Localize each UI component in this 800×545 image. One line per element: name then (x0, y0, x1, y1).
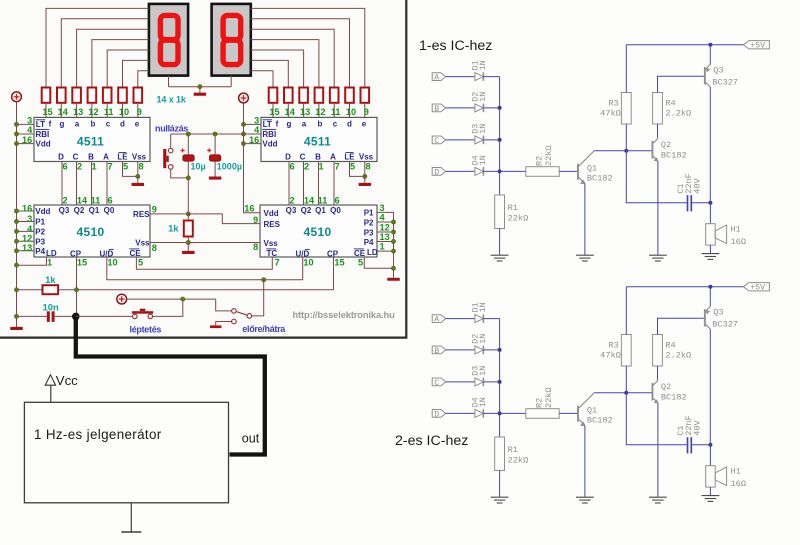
svg-text:4511: 4511 (77, 135, 104, 149)
svg-text:47kΩ: 47kΩ (600, 351, 621, 361)
power symbol +V stepping (117, 294, 127, 304)
wire DISP1 pin e to resistor column (138, 71, 149, 88)
IC U3 4510 body (34, 205, 150, 257)
svg-text:47kΩ: 47kΩ (600, 109, 621, 119)
wire resistor to 4511 IC1 pin (91, 103, 93, 118)
svg-text:3: 3 (27, 214, 32, 224)
svg-text:D: D (285, 153, 291, 162)
transistor Q2 BC182 (circuit 2) (652, 383, 654, 401)
wire resistor to 4511 IC1 pin (60, 103, 62, 118)
svg-text:léptetés: léptetés (130, 325, 162, 335)
svg-text:D: D (58, 153, 64, 162)
diode D3 (circuit 2) (475, 378, 484, 386)
capacitor 1000u plus sign (207, 149, 211, 151)
svg-text:2.2kΩ: 2.2kΩ (665, 109, 691, 119)
resistor segment-e (14 x 1k bank, right) (361, 88, 370, 103)
svg-text:15: 15 (334, 258, 344, 268)
wire U4 P1 to right rail (377, 212, 394, 277)
svg-text:BC182: BC182 (587, 173, 613, 183)
svg-text:g: g (60, 120, 65, 129)
svg-text:a: a (75, 120, 80, 129)
junction speaker node (circuit 1) (708, 201, 712, 205)
svg-text:P2: P2 (364, 218, 374, 227)
junction rail Q3 (circuit 1) (708, 43, 712, 47)
svg-text:22kΩ: 22kΩ (544, 145, 554, 166)
svg-text:R4: R4 (665, 340, 675, 350)
supply flag +5V (circuit 1) (743, 41, 769, 49)
svg-text:B: B (434, 105, 439, 114)
wire port A to diode D1 (circuit 1) (446, 76, 475, 78)
svg-text:4510: 4510 (304, 225, 332, 239)
svg-text:11: 11 (91, 195, 101, 205)
svg-text:Vdd: Vdd (36, 140, 51, 149)
input port A (circuit 2) (432, 315, 446, 323)
wire C-Q2 (left pair) (76, 162, 78, 206)
wire U4 P-pin to right rail (377, 241, 394, 243)
svg-text:3: 3 (380, 203, 385, 213)
input port D (circuit 1) (432, 168, 446, 176)
svg-text:CE: CE (130, 249, 142, 258)
junction bus (circuit 2) (498, 411, 502, 415)
wire Q1 emitter to ground (circuit 1) (584, 183, 586, 255)
wire throw2 to ground (216, 322, 232, 326)
ground R1 (circuit 1) (491, 254, 509, 256)
wire R3 bottom to node (circuit 1) (625, 124, 627, 151)
wire port D to diode D4 (circuit 2) (446, 412, 475, 414)
svg-text:1k: 1k (45, 274, 56, 285)
wire to display ground (199, 87, 201, 93)
7-segment display DISP2 body (212, 4, 251, 76)
wire resistor to 4511 IC2 pin (318, 103, 320, 118)
wire U1 pin16 Vdd (17, 143, 35, 145)
svg-text:c: c (333, 120, 338, 129)
svg-text:R1: R1 (508, 445, 518, 455)
svg-text:14: 14 (77, 195, 88, 205)
svg-text:R2: R2 (534, 398, 544, 408)
wire diode-OR bus (circuit 1) (499, 77, 501, 195)
wire A-Q0 (right pair) (333, 162, 335, 206)
wire U4 CP down (333, 257, 335, 290)
wire +5V rail (circuit 2) (626, 286, 743, 288)
svg-text:14 x 1k: 14 x 1k (157, 94, 187, 104)
svg-text:P4: P4 (364, 238, 374, 247)
svg-text:7: 7 (107, 161, 112, 171)
switch elore/hatra throw1 contact (232, 309, 237, 314)
wire DISP2 pin to resistor column x=364.8 (251, 8, 365, 87)
transistor Q1 BC182 (circuit 2) (577, 406, 579, 422)
wire U1 pin4 RBI (17, 133, 35, 135)
wire DISP1 pin f to resistor column (46, 8, 149, 87)
svg-text:1k: 1k (168, 223, 179, 234)
svg-text:+5V: +5V (750, 42, 765, 51)
svg-text:5: 5 (138, 258, 143, 268)
wire U3 CP down to clock node (76, 257, 78, 316)
junction node base2 (circuit 1) (624, 149, 628, 153)
capacitor C1 22nF (circuit 2) (687, 437, 689, 453)
svg-text:Vss: Vss (359, 153, 374, 162)
switch elore/hatra throw2 contact (232, 319, 237, 324)
svg-text:10: 10 (346, 107, 356, 117)
capacitor C 1000u plate (209, 155, 220, 161)
wire resistor to 4511 IC1 pin (76, 103, 78, 118)
svg-text:16: 16 (22, 203, 32, 213)
svg-text:12: 12 (315, 107, 325, 117)
wire DISP2 pin to resistor column x=349.5 (251, 19, 350, 88)
svg-text:13: 13 (300, 107, 310, 117)
wire R4 top to Q3 base (circuit 2) (658, 318, 704, 334)
wire bus to R2 (circuit 2) (500, 412, 526, 414)
svg-text:16: 16 (249, 135, 259, 145)
svg-text:4510: 4510 (77, 225, 105, 239)
wire port C to diode D3 (circuit 2) (446, 381, 475, 383)
7-segment display DISP1 digit 8 (160, 15, 178, 64)
svg-text:13: 13 (22, 243, 32, 253)
wire U3 pin 3 P1 (17, 221, 35, 223)
input port B (circuit 1) (432, 104, 446, 112)
svg-text:15: 15 (77, 258, 87, 268)
wire R2 to Q1 base (circuit 1) (559, 170, 577, 172)
resistor segment-a (14 x 1k bank, right) (299, 88, 308, 103)
supply flag +5V (circuit 2) (743, 283, 769, 291)
svg-text:Q3: Q3 (59, 206, 70, 215)
resistor R2 22k (circuit 2) (526, 409, 559, 419)
wire U3 LD to rail (17, 257, 47, 265)
svg-text:8: 8 (253, 242, 258, 252)
svg-text:+5V: +5V (750, 284, 765, 293)
svg-text:9: 9 (137, 107, 142, 117)
svg-text:40V: 40V (692, 177, 702, 193)
wire bus to selector throw1 (216, 299, 232, 311)
svg-text:1-es IC-hez: 1-es IC-hez (419, 38, 492, 54)
ground Q2 (circuit 1) (649, 254, 667, 256)
svg-text:Q3: Q3 (713, 307, 723, 317)
wire R3 top to rail (circuit 1) (625, 45, 627, 93)
wire A-Q0 (left pair) (106, 162, 108, 206)
svg-text:BC327: BC327 (712, 319, 738, 329)
wire Q3 emitter to rail (circuit 2) (709, 287, 711, 307)
wire U3 RES to junction (150, 213, 188, 215)
svg-text:BC182: BC182 (661, 393, 687, 403)
svg-text:D: D (434, 410, 439, 419)
wire U3 pin 4 P2 (17, 230, 35, 232)
wire Q2 emitter down (circuit 1) (657, 161, 659, 255)
wire U2 Vss stub (364, 176, 366, 183)
wire U2 Vss down (364, 162, 366, 177)
svg-text:22kΩ: 22kΩ (508, 214, 529, 224)
wire 1k bottom stub (187, 237, 189, 243)
junction bus (circuit 2) (498, 380, 502, 384)
7-segment display DISP1 body (149, 4, 188, 76)
wire 1000u top (214, 134, 216, 155)
diode D2 (circuit 1) (475, 104, 484, 112)
wire Vcc to generator (50, 385, 52, 402)
svg-text:P3: P3 (364, 228, 374, 237)
svg-text:10: 10 (107, 258, 117, 268)
junction bus (circuit 2) (498, 348, 502, 352)
svg-text:D: D (434, 168, 439, 177)
svg-text:e: e (362, 120, 367, 129)
resistor R4 2.2k (circuit 1) (653, 93, 663, 125)
wire DISP1 pin d to resistor column (123, 60, 149, 87)
wire node to speaker (circuit 2) (709, 445, 711, 466)
svg-text:Q1: Q1 (587, 163, 597, 173)
capacitor 10u plus sign (181, 149, 185, 151)
wire resistor to 4511 IC1 pin (122, 103, 124, 118)
wire resistor to 4511 IC2 pin (364, 103, 366, 118)
wire port B to diode D2 (circuit 1) (446, 107, 475, 109)
input port C (circuit 2) (432, 378, 446, 386)
wire diode D3 to bus (circuit 1) (483, 139, 499, 141)
svg-text:22kΩ: 22kΩ (508, 456, 529, 466)
svg-text:előre/hátra: előre/hátra (242, 324, 286, 334)
svg-text:http://bsselektronika.hu: http://bsselektronika.hu (293, 309, 396, 320)
svg-text:1: 1 (47, 258, 52, 268)
svg-text:R3: R3 (608, 98, 618, 108)
svg-text:B: B (434, 347, 439, 356)
junction U1 Vss-LE (136, 174, 140, 178)
wire diode D4 to bus (circuit 1) (483, 170, 499, 172)
wire R3 bottom to node (circuit 2) (625, 366, 627, 393)
svg-text:15: 15 (269, 107, 279, 117)
svg-text:out: out (242, 432, 260, 446)
svg-text:2: 2 (289, 195, 294, 205)
resistor segment-d (14 x 1k bank, right) (345, 88, 354, 103)
wire B-Q1 (right pair) (318, 162, 320, 206)
wire node to speaker (circuit 1) (709, 203, 711, 224)
wire U3 CE to U4 TC (136, 257, 272, 269)
junction node base2 (circuit 2) (624, 391, 628, 395)
svg-text:1N: 1N (479, 124, 488, 134)
wire resistor to 4511 IC2 pin (349, 103, 351, 118)
resistor segment-f (14 x 1k bank, left) (42, 88, 51, 103)
svg-text:Vss: Vss (135, 239, 150, 248)
wire C-Q2 (right pair) (303, 162, 305, 206)
wire U2 pin4 RBI (244, 133, 262, 135)
svg-text:Q3: Q3 (286, 206, 297, 215)
diode D1 (circuit 1) (475, 73, 484, 81)
svg-text:C: C (434, 379, 439, 388)
svg-text:8: 8 (152, 243, 157, 253)
svg-text:10µ: 10µ (191, 161, 206, 171)
svg-text:LE: LE (117, 153, 128, 162)
wire DISP1 pin b to resistor column (92, 40, 149, 88)
resistor segment-g (14 x 1k bank, right) (284, 88, 293, 103)
wire C1 to speaker node (circuit 2) (692, 444, 710, 446)
wire R4 top to Q3 base (circuit 1) (658, 76, 704, 92)
junction bus (circuit 1) (498, 169, 502, 173)
wire port C to diode D3 (circuit 1) (446, 139, 475, 141)
svg-text:9: 9 (152, 205, 157, 215)
svg-text:2.2kΩ: 2.2kΩ (665, 351, 691, 361)
wire Q3 emitter to rail (circuit 1) (709, 45, 711, 65)
svg-text:1: 1 (318, 161, 323, 171)
wire U4 CE down (364, 257, 393, 268)
resistor segment-g (14 x 1k bank, left) (57, 88, 66, 103)
ground Q2 (circuit 2) (649, 496, 667, 498)
wire node to leptetes button (76, 315, 133, 317)
svg-text:10: 10 (119, 107, 129, 117)
svg-text:12: 12 (380, 223, 390, 233)
wire U1 LE to Vss (123, 162, 138, 177)
svg-text:b: b (318, 120, 323, 129)
wire D-Q3 (right pair) (288, 162, 290, 206)
resistor segment-b (14 x 1k bank, right) (315, 88, 324, 103)
wire diode D1 to bus (circuit 1) (483, 76, 499, 78)
wire 10n to node (55, 315, 76, 317)
svg-text:4: 4 (27, 125, 33, 135)
wire generator ground stem (130, 503, 132, 532)
wire 1k to ground (187, 243, 189, 251)
wire U3 pin 13 P4 (17, 250, 35, 252)
resistor R 1k (reset) (184, 221, 193, 237)
ground U4 right rail (387, 278, 400, 281)
resistor R1 22k (circuit 1) (495, 195, 505, 229)
wire nullazas top bus (171, 133, 244, 135)
input port D (circuit 2) (432, 410, 446, 418)
pushbutton nullazas cap (163, 149, 166, 168)
svg-text:P3: P3 (35, 237, 45, 246)
svg-text:22kΩ: 22kΩ (544, 387, 554, 408)
wire node to Q2 base (circuit 2) (626, 392, 651, 394)
svg-text:11: 11 (104, 107, 114, 117)
ground displays common (194, 93, 207, 96)
wire RES net to U4 RES (188, 214, 260, 224)
capacitor C 10u plate (183, 155, 194, 161)
junction right rail CE (391, 266, 395, 270)
power symbol +V left (12, 92, 22, 102)
svg-text:4: 4 (27, 224, 33, 234)
ground Q1 (circuit 1) (576, 254, 594, 256)
svg-text:C: C (300, 153, 306, 162)
transistor Q2 BC182 (circuit 1) (652, 141, 654, 159)
svg-text:LD: LD (367, 248, 378, 257)
svg-text:RBI: RBI (36, 130, 50, 139)
wire R4 bottom to Q2 collector (circuit 2) (657, 366, 659, 380)
svg-text:LE: LE (344, 153, 355, 162)
wire DISP2 common cathode (230, 76, 232, 87)
wire diode D4 to bus (circuit 2) (483, 412, 499, 414)
resistor segment-f (14 x 1k bank, right) (269, 88, 278, 103)
wire node to C1 (circuit 1) (626, 151, 686, 203)
svg-text:13: 13 (73, 107, 83, 117)
resistor segment-e (14 x 1k bank, left) (134, 88, 143, 103)
wire Q2 emitter down (circuit 2) (657, 403, 659, 497)
ground left rail (10, 327, 23, 330)
ground generator (121, 531, 141, 533)
wire right supply rail (244, 103, 262, 213)
svg-text:16: 16 (22, 135, 32, 145)
svg-text:9: 9 (364, 107, 369, 117)
svg-text:Q2: Q2 (661, 140, 671, 150)
switch elore/hatra lever (236, 312, 247, 316)
svg-text:10: 10 (303, 258, 313, 268)
svg-text:P2: P2 (35, 227, 45, 236)
resistor R4 2.2k (circuit 2) (653, 335, 663, 367)
svg-text:7: 7 (274, 258, 279, 268)
svg-text:1N: 1N (479, 92, 488, 102)
wire port A to diode D1 (circuit 2) (446, 318, 475, 320)
svg-text:8: 8 (365, 161, 370, 171)
svg-text:5: 5 (358, 258, 363, 268)
resistor R3 47k (circuit 2) (621, 335, 631, 367)
node clock output (big junction) (72, 313, 80, 321)
ground Q1 (circuit 2) (576, 496, 594, 498)
ground H1 (circuit 1) (702, 253, 720, 255)
svg-text:10n: 10n (43, 301, 59, 312)
junction RES net (186, 212, 190, 216)
wire port B to diode D2 (circuit 2) (446, 349, 475, 351)
svg-text:Vdd: Vdd (262, 140, 277, 149)
ground selector throw2 (210, 325, 222, 328)
supply Vcc triangle (45, 375, 55, 385)
wire resistor to 4511 IC2 pin (287, 103, 289, 118)
svg-text:d: d (347, 120, 352, 129)
wire 1000u bottom (214, 161, 216, 176)
svg-text:14: 14 (285, 107, 296, 117)
ground H1 (circuit 2) (702, 495, 720, 497)
wire resistor to 4511 IC2 pin (333, 103, 335, 118)
wire diode D1 to bus (circuit 2) (483, 318, 499, 320)
wire U2 pin16 Vdd (244, 143, 262, 145)
svg-text:A: A (103, 153, 109, 162)
wire node to Q2 base (circuit 1) (626, 150, 651, 152)
svg-text:16Ω: 16Ω (731, 237, 746, 247)
wire nullazas button top (170, 134, 172, 148)
junction CP U3 (74, 288, 78, 292)
resistor R 1k (clock) (43, 285, 59, 294)
wire DISP2 pin to resistor column x=273.0 (251, 71, 273, 88)
wire speaker to ground (circuit 1) (709, 245, 711, 254)
svg-text:2: 2 (304, 161, 309, 171)
ground U2 Vss (359, 183, 372, 186)
wire Q3 collector down (circuit 1) (709, 87, 711, 203)
junction rail 10n (14, 314, 18, 318)
svg-text:nullázás: nullázás (155, 123, 188, 133)
junction rail Q3 (circuit 2) (708, 285, 712, 289)
diode D4 (circuit 2) (475, 409, 484, 417)
wire resistor to 4511 IC2 pin (303, 103, 305, 118)
svg-text:1000µ: 1000µ (217, 161, 242, 171)
wire R2 to Q1 base (circuit 2) (559, 412, 577, 414)
svg-text:2: 2 (62, 195, 67, 205)
svg-text:1N: 1N (479, 302, 488, 312)
wire U3 U/D to U4 U/D (107, 257, 303, 280)
svg-text:8: 8 (138, 161, 143, 171)
wire speaker to ground (circuit 2) (709, 487, 711, 496)
svg-text:1: 1 (380, 242, 385, 252)
transistor Q3 BC327 (circuit 1) (704, 67, 706, 84)
svg-text:BC182: BC182 (587, 415, 613, 425)
IC U1 4511 body (34, 117, 150, 161)
junction Vss-1k (186, 240, 190, 244)
junction bus (circuit 1) (498, 106, 502, 110)
wire U4 P-pin to right rail (377, 250, 394, 252)
svg-text:4511: 4511 (304, 135, 331, 149)
svg-text:4: 4 (254, 125, 260, 135)
svg-text:Q0: Q0 (104, 206, 115, 215)
svg-text:R3: R3 (608, 340, 618, 350)
7-segment display DISP2 digit 8 (223, 15, 241, 64)
svg-text:b: b (91, 120, 96, 129)
junction displays common (198, 85, 202, 89)
svg-text:P4: P4 (35, 247, 45, 256)
wire U1 Vss stub (137, 176, 139, 183)
junction rail LD (14, 263, 18, 267)
wire R4 bottom to Q2 collector (circuit 1) (657, 124, 659, 138)
input port B (circuit 2) (432, 346, 446, 354)
svg-text:Q1: Q1 (315, 206, 326, 215)
diode D2 (circuit 2) (475, 346, 484, 354)
